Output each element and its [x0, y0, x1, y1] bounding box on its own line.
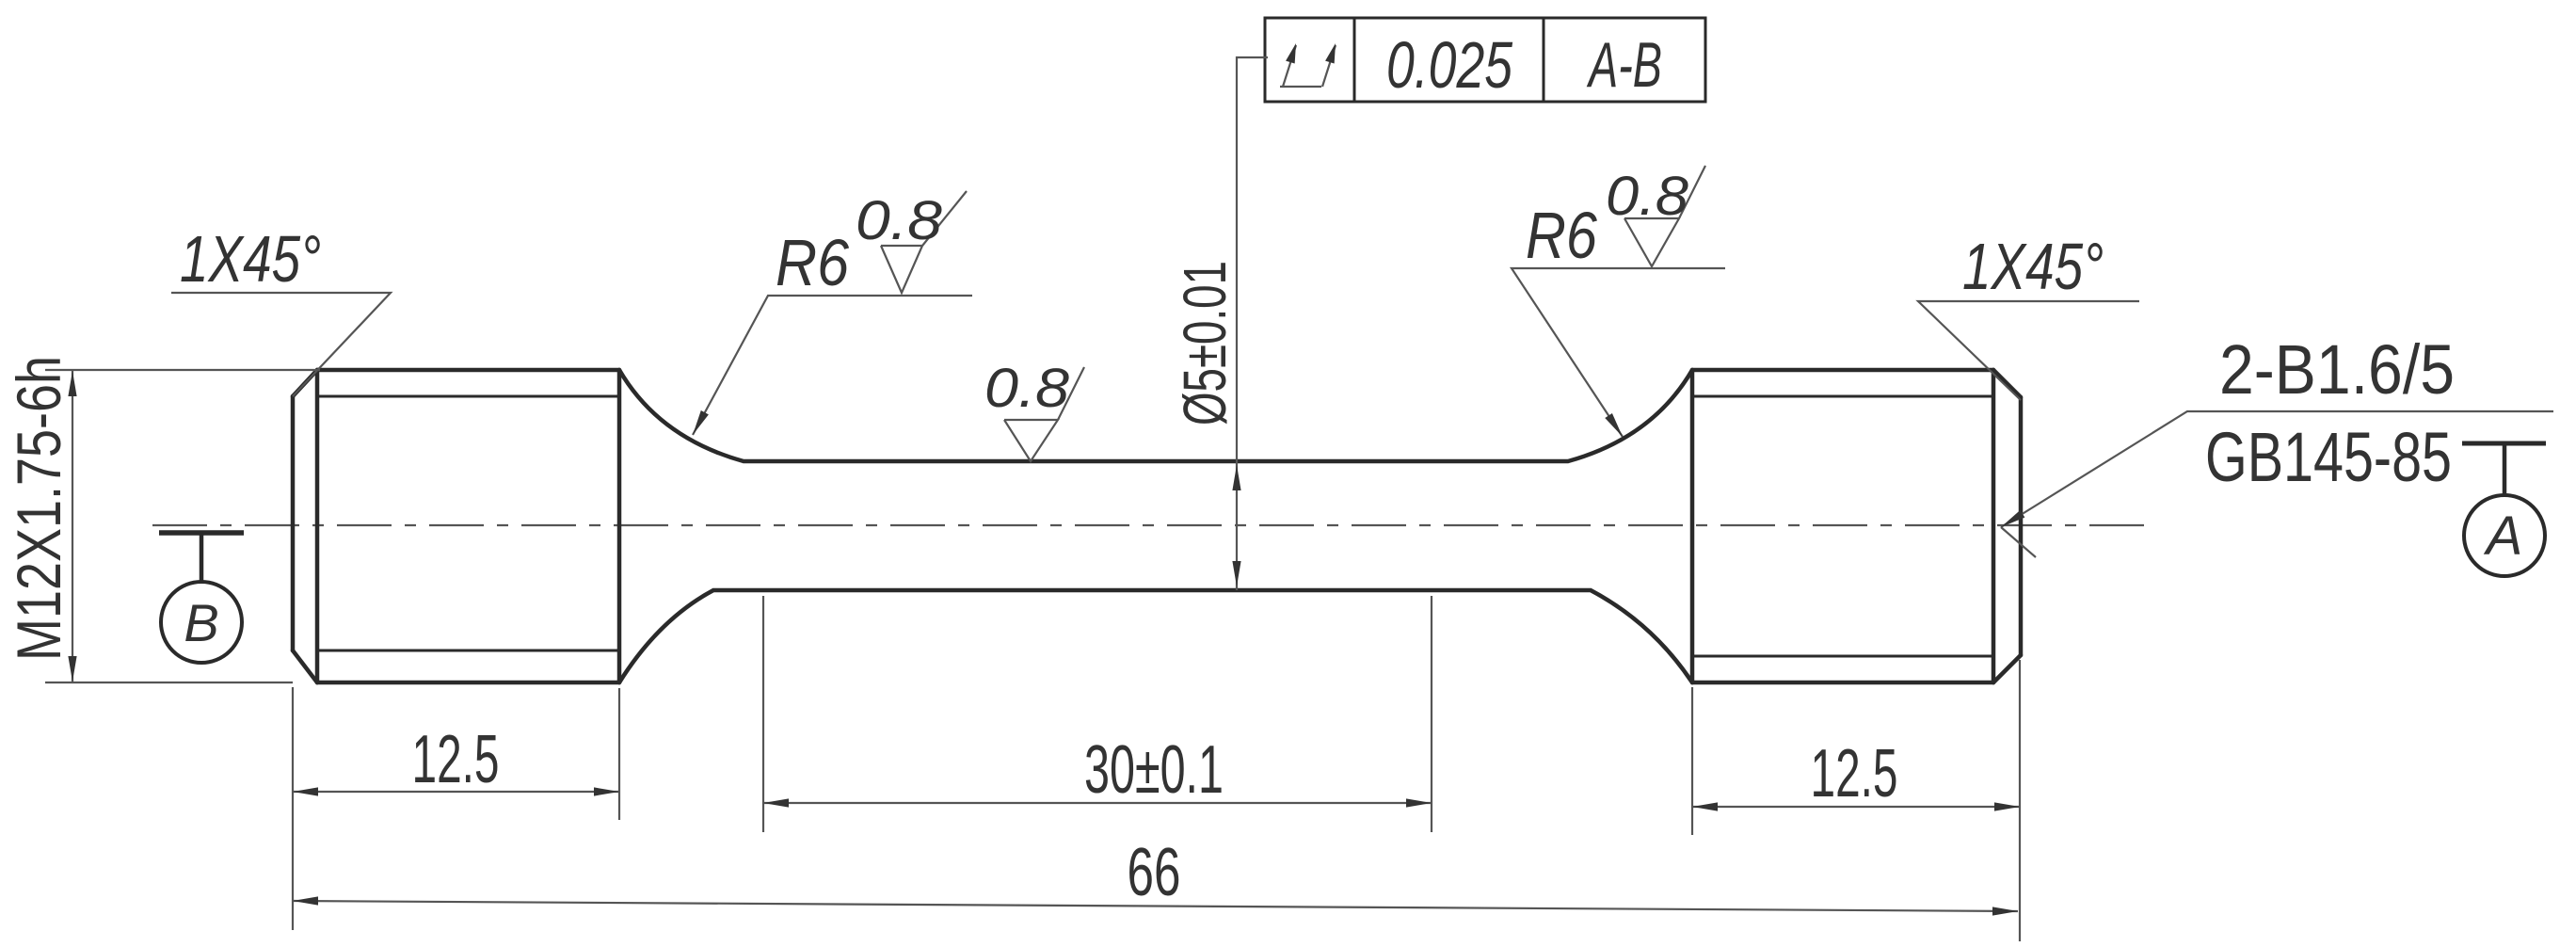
svg-text:1X45°: 1X45°: [180, 222, 321, 296]
svg-text:0.8: 0.8: [984, 358, 1069, 419]
svg-text:B: B: [184, 593, 218, 652]
svg-text:R6: R6: [1526, 199, 1597, 272]
svg-text:M12X1.75-6h: M12X1.75-6h: [4, 356, 73, 661]
svg-text:GB145-85: GB145-85: [2205, 418, 2452, 496]
svg-text:A-B: A-B: [1586, 29, 1662, 101]
svg-text:R6: R6: [776, 226, 849, 299]
svg-text:A: A: [2484, 506, 2523, 567]
svg-text:12.5: 12.5: [412, 722, 500, 797]
svg-text:30±0.1: 30±0.1: [1084, 732, 1224, 808]
svg-text:Ø5±0.01: Ø5±0.01: [1171, 261, 1239, 425]
svg-text:1X45°: 1X45°: [1962, 230, 2104, 303]
svg-text:12.5: 12.5: [1811, 736, 1898, 811]
svg-text:2-B1.6/5: 2-B1.6/5: [2219, 330, 2455, 409]
svg-text:0.025: 0.025: [1386, 28, 1513, 102]
svg-text:66: 66: [1128, 835, 1181, 910]
svg-text:0.8: 0.8: [856, 190, 942, 251]
svg-text:0.8: 0.8: [1606, 166, 1688, 227]
